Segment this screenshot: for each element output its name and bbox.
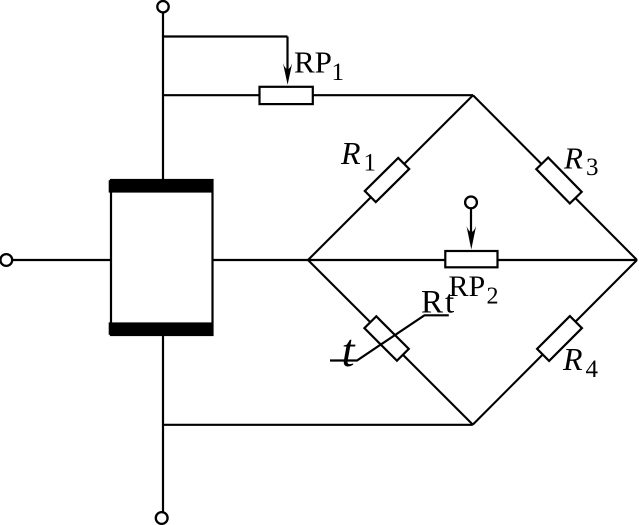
terminal: bottom supply [156, 512, 168, 524]
wire: bridge center rail left of RP2 [308, 259, 446, 261]
resistor R1 body [365, 158, 409, 202]
svg-text:t: t [342, 325, 356, 377]
wire: RP1 wiper feedback vertical drop [286, 37, 288, 79]
thermistor stroke line through Rt with t foot [330, 315, 449, 360]
potentiometer RP1 body [260, 87, 313, 104]
wire: bridge arm top-right (R3 arm) [473, 95, 637, 260]
RP1 wiper arrowhead [283, 63, 292, 85]
resistor R4 body [537, 316, 582, 361]
resistor R3 body [536, 158, 581, 204]
svg-text:RP: RP [294, 45, 332, 80]
svg-text:R: R [340, 135, 361, 171]
terminal: top supply [157, 1, 168, 12]
wire: bottom rail to bridge bottom vertex [163, 424, 473, 426]
block: converter U (rectangle with solid plates) [109, 180, 213, 335]
wire: RP2 wiper shaft [470, 208, 472, 243]
resistor Rt body [364, 316, 408, 360]
svg-text:1: 1 [364, 150, 377, 177]
wire: bridge arm bottom-right (R4 arm) [473, 260, 637, 425]
wire: bridge arm top-left (R1 arm) [308, 95, 473, 260]
potentiometer RP2 body [445, 251, 497, 267]
wire: top terminal down to block top [162, 12, 164, 181]
wire: RP1 to bridge top vertex [313, 94, 473, 96]
svg-text:R: R [562, 341, 583, 377]
svg-text:R: R [563, 141, 583, 176]
wire: RP2 to bridge right vertex [498, 259, 638, 261]
wire: RP1 wiper feedback horizontal [163, 35, 288, 37]
wire: block to bridge left vertex [213, 259, 309, 261]
wire: block bottom to bottom terminal [162, 335, 164, 512]
terminal: RP2 wiper [465, 197, 477, 209]
terminal: left input [0, 254, 12, 266]
svg-text:1: 1 [332, 59, 345, 86]
svg-text:RP: RP [449, 270, 486, 303]
svg-text:4: 4 [586, 356, 599, 383]
wire: bridge arm bottom-left (Rt arm) [308, 260, 473, 425]
RP2 wiper arrowhead [467, 226, 477, 250]
wire: left terminal to block [12, 259, 112, 261]
svg-text:3: 3 [586, 154, 599, 181]
svg-text:2: 2 [487, 284, 499, 310]
wire: top rail, block wire to RP1 [163, 94, 261, 96]
